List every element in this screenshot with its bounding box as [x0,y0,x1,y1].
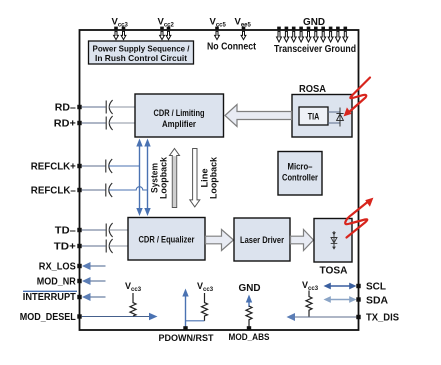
svg-text:RD+: RD+ [54,119,76,130]
pin RD+ square [77,121,81,125]
svg-text:TIA: TIA [308,112,320,122]
pin RD- square [77,105,81,109]
svg-text:In Rush Control Circuit: In Rush Control Circuit [95,53,187,63]
wire/arrow MOD_NR [82,277,106,285]
ROSA block [292,95,352,138]
pin TD+ square [77,244,81,248]
svg-text:INTERRUPT: INTERRUPT [23,292,77,303]
thick arrow CDR/equalizer to laser driver [206,230,234,251]
laser diode in TOSA [331,231,338,250]
pin TD- square [77,228,81,232]
wire TD- right [109,229,128,231]
capacitor TD- coupling [106,223,112,237]
optical output annotation (red scribble arrow out of TOSA) [345,200,370,238]
wire TD+ left [82,245,106,247]
wire/arrow INTERRUPT [82,293,106,301]
svg-text:MOD_NR: MOD_NR [37,277,76,288]
svg-text:MOD_DESEL: MOD_DESEL [20,312,77,323]
svg-text:REFCLK+: REFCLK+ [31,162,76,173]
svg-text:TD+: TD+ [54,242,76,253]
pin MOD_ABS square [247,326,251,330]
TIA block [299,107,328,125]
pin MOD_DESEL square [77,314,81,318]
wire REFCLK+ right [109,165,140,167]
svg-text:Loopback: Loopback [159,156,169,199]
pin INTERRUPT square [77,295,81,299]
resistor R (PDOWN/RST pull-up) [202,293,208,321]
CDR / Equalizer block [128,218,205,261]
pin MOD_NR square [77,279,81,283]
svg-text:SDA: SDA [366,296,388,307]
svg-text:Micro–: Micro– [288,162,313,172]
svg-text:CDR / Equalizer: CDR / Equalizer [139,235,195,246]
TOSA block [314,219,352,263]
line loopback down arrow [190,149,200,207]
system loopback up arrow [170,149,180,208]
svg-text:Laser Driver: Laser Driver [240,235,284,246]
svg-text:PDOWN/RST: PDOWN/RST [159,333,214,344]
pin PDOWN/RST square [183,326,187,330]
pin arrow Vee5 [241,27,246,40]
wire MOD_DESEL with right arrow [82,313,158,321]
capacitor REFCLK- coupling [106,183,112,197]
wire RD- left [82,106,106,108]
svg-text:No Connect: No Connect [207,42,257,53]
clock/loopback vertical double arrow 2 [144,139,150,217]
system loopback label [150,156,169,199]
line loopback label [200,156,219,199]
transceiver ground pin arrows [277,27,348,42]
resistor R (MOD_ABS) [246,306,252,329]
svg-text:ROSA: ROSA [299,84,326,95]
pin arrows Vcc2 [160,27,171,40]
wire PDOWN/RST vertical with up arrow [182,289,204,330]
svg-text:Amplifier: Amplifier [162,119,196,130]
pin SCL square [356,284,360,288]
wire REFCLK- right with hop over first clock line [109,187,148,190]
svg-text:TD–: TD– [55,226,76,237]
pin arrows Vcc3 [114,27,126,40]
wire TIA to photodiode (top) [328,111,340,113]
optical input annotation (red scribble arrow into ROSA photodiode) [348,78,370,114]
wire/arrow RX_LOS [82,262,106,270]
svg-text:TOSA: TOSA [320,266,348,277]
pin RX_LOS square [77,264,81,268]
thick arrow laser driver to TOSA [291,230,314,251]
svg-text:GND: GND [239,283,261,294]
svg-text:SCL: SCL [366,282,386,293]
wire TX_DIS with left arrow [287,313,359,321]
capacitor REFCLK+ coupling [106,159,112,173]
clock/loopback vertical double arrow 1 [136,139,142,217]
module boundary [80,30,359,330]
wire RD+ left [82,122,106,124]
SDA bidirectional arrow [324,296,357,303]
power supply sequence / in-rush control block [89,41,194,64]
svg-text:Loopback: Loopback [209,156,219,199]
svg-text:RD–: RD– [55,103,76,114]
svg-text:RX_LOS: RX_LOS [39,262,76,273]
photodiode in ROSA [336,108,343,127]
svg-text:GND: GND [303,17,325,28]
svg-text:Transceiver Ground: Transceiver Ground [274,44,356,55]
wire REFCLK- left [82,189,106,191]
svg-text:TX_DIS: TX_DIS [366,313,399,324]
wire TIA to photodiode (bottom) [328,122,340,124]
capacitor TD+ coupling [106,239,112,253]
pin INTERRUPT label with overbar [23,291,77,303]
svg-text:Controller: Controller [282,173,318,183]
micro-controller block [278,152,322,196]
pin TX_DIS square [356,315,360,319]
wire REFCLK+ left [82,165,106,167]
wire TD+ right [109,245,128,247]
wire TD- left [82,229,106,231]
wire/arrow MOD_ABS up [246,295,252,308]
capacitor RD+ coupling [106,116,112,130]
wire RD+ right [109,122,135,124]
capacitor RD- coupling [106,100,112,114]
pin REFCLK- square [77,188,81,192]
wire RD- right [109,106,135,108]
SCL bidirectional arrow [324,283,357,290]
thick arrow ROSA to CDR/limiting amp [225,105,292,127]
svg-text:MOD_ABS: MOD_ABS [229,332,270,343]
laser driver block [234,218,290,261]
pin SDA square [356,297,360,301]
svg-text:CDR / Limiting: CDR / Limiting [154,108,205,119]
svg-text:REFCLK–: REFCLK– [31,186,76,197]
resistor R (TX_DIS pull-up) [306,291,312,317]
pin REFCLK+ square [77,164,81,168]
resistor R (MOD_DESEL pull-up) [130,293,136,316]
CDR / Limiting Amplifier block [135,94,224,137]
svg-text:Power Supply Sequence /: Power Supply Sequence / [93,44,191,54]
pin arrow Vcc5 [215,27,220,40]
